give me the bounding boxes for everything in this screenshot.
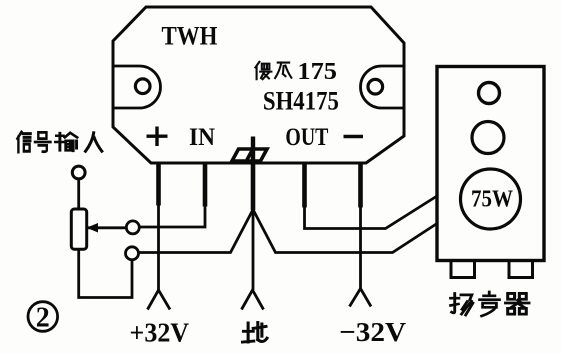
label 器 [506,293,529,314]
wire ground pin vertical to 地 terminal [252,208,255,290]
wire IN pin down and left to input jack [140,200,206,227]
label 傻 (sha) [255,62,271,79]
terminal 地 crow foot [242,290,264,310]
potentiometer RP body [71,209,86,249]
wire +32V vertical from pin 1 [157,200,160,290]
svg-text:TWH: TWH [162,22,218,51]
speaker mid circle [472,122,504,154]
pin label + [147,127,168,147]
svg-text:2: 2 [36,303,50,334]
terminal -32V crow foot [350,289,372,307]
speaker right foot [509,261,533,278]
label 扬 [451,293,473,315]
input jack upper contact circle [126,221,139,234]
speaker left foot [451,261,475,278]
pin 5 (-) [358,163,363,208]
label 信 [17,132,30,152]
label 人 [86,133,102,151]
wire pot bottom return [79,249,132,298]
svg-text:OUT: OUT [285,124,328,151]
potentiometer wiper wire [88,226,127,229]
speaker tweeter circle [479,83,500,104]
speaker box [437,67,544,261]
pin 4 (OUT) [302,163,307,208]
label 瓜 (gua) [275,63,291,79]
svg-text:175: 175 [297,59,337,85]
label 声 [480,292,500,316]
svg-text:IN: IN [189,124,215,151]
pin 1 (+) [156,163,161,206]
figure number 2 circled [28,302,58,332]
wire ground branch right to speaker return [253,210,437,253]
pin label - [344,135,364,138]
wire OUT pin to speaker [305,196,438,229]
svg-text:SH4175: SH4175 [263,87,339,116]
left mounting hole [135,79,150,94]
terminal +32V crow foot [148,290,171,310]
speaker woofer circle 75W [461,169,521,229]
right mounting tab [361,66,404,108]
wire -32V vertical from pin 5 [359,200,362,289]
pin 3 (ground tab) [251,163,256,210]
pin 2 (IN) [203,163,208,207]
signal input terminal circle [72,166,85,179]
input jack lower contact circle [126,247,139,260]
right mounting hole [368,79,383,94]
svg-text:+32V: +32V [130,318,190,348]
left mounting tab [113,66,160,108]
potentiometer wiper arrow [87,223,99,233]
label 输 [55,133,77,151]
wire input terminal to potentiometer [77,179,80,209]
wire ground branch left diagonal to input return [139,210,254,253]
svg-text:−32V: −32V [339,316,406,347]
ground tab symbol (hatched parallelogram) [232,137,267,164]
amplifier module U1 package outline (TWH SH4175) [113,7,404,163]
label 号 [35,132,51,151]
label 地 (ground) [243,322,267,342]
svg-text:75W: 75W [471,187,513,213]
